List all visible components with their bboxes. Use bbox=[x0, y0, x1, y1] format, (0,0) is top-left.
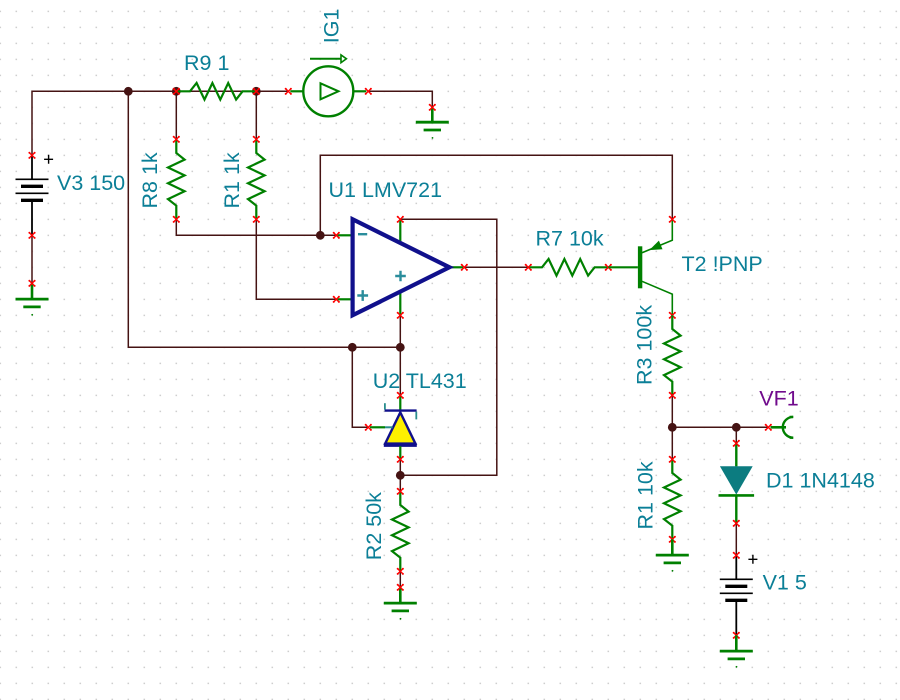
junction at R9 left bbox=[172, 87, 181, 96]
current source IG1 bbox=[285, 55, 372, 116]
ground for R1 10k bbox=[656, 539, 689, 571]
svg-text:R8 1k: R8 1k bbox=[138, 152, 162, 208]
wire TL431 reference bbox=[352, 347, 368, 427]
junction at TL431 cathode rail bbox=[396, 343, 405, 352]
svg-text:D1 1N4148: D1 1N4148 bbox=[766, 469, 875, 493]
svg-text:V3 150: V3 150 bbox=[57, 171, 125, 195]
svg-text:R2 50k: R2 50k bbox=[362, 492, 386, 560]
wire V3 bottom to ground bbox=[31, 235, 33, 283]
ground for V1 bbox=[720, 635, 753, 667]
junction at D1 node bbox=[732, 423, 741, 432]
wire op-amp output to R7 bbox=[464, 266, 528, 268]
wire R2 bottom to ground bbox=[399, 571, 401, 587]
junction at TL431 ref rail bbox=[348, 343, 357, 352]
wire left drop to TL431 rail bbox=[128, 91, 400, 347]
wire R8 top bbox=[175, 91, 177, 139]
svg-text:IG1: IG1 bbox=[319, 9, 343, 44]
wire TL431 cathode bbox=[399, 347, 401, 395]
junction at R9 right bbox=[252, 87, 261, 96]
svg-text:R1 1k: R1 1k bbox=[220, 152, 244, 208]
svg-text:V1 5: V1 5 bbox=[763, 570, 807, 594]
svg-text:R3 100k: R3 100k bbox=[633, 305, 657, 385]
wire IG1 right pin to ground bbox=[368, 91, 432, 107]
resistor R2 bbox=[392, 488, 409, 575]
wire R1 top bbox=[255, 91, 257, 139]
wire R1 bottom to non-inverting input bbox=[256, 219, 336, 299]
resistor R8 bbox=[168, 136, 185, 223]
wire R3 bottom to R1 top bbox=[671, 395, 673, 459]
resistor R9 bbox=[173, 83, 260, 100]
resistor R3 bbox=[664, 315, 681, 399]
ground for R2 bbox=[384, 587, 417, 619]
wire node to D1 bbox=[735, 427, 737, 443]
ground for IG1 bbox=[416, 107, 449, 139]
svg-text:R9 1: R9 1 bbox=[184, 51, 229, 75]
wire D1 cathode to V1 bbox=[735, 523, 737, 555]
wire op-amp top supply to TL431 bottom node bbox=[400, 219, 497, 475]
junction at inverting input node bbox=[316, 231, 325, 240]
resistor R7 bbox=[525, 259, 612, 276]
voltage probe VF1 bbox=[765, 417, 794, 438]
wire op-amp bottom supply bbox=[399, 315, 401, 347]
resistor R1 1k bbox=[248, 136, 265, 223]
svg-text:R1 10k: R1 10k bbox=[634, 461, 658, 529]
svg-text:U2 TL431: U2 TL431 bbox=[373, 369, 467, 393]
junction at top rail x=128 bbox=[124, 87, 133, 96]
svg-text:T2 !PNP: T2 !PNP bbox=[682, 252, 763, 276]
diode D1 bbox=[719, 440, 755, 527]
wire top rail from V3 to R9/IG1 bbox=[32, 91, 288, 155]
wire feedback from inverting node to T2 emitter bbox=[320, 155, 672, 235]
ground for V3 bbox=[16, 283, 49, 315]
battery V1 bbox=[720, 552, 758, 639]
junction at TL431 anode node bbox=[396, 471, 405, 480]
svg-text:R7 10k: R7 10k bbox=[536, 226, 604, 250]
battery V3 bbox=[16, 152, 54, 239]
svg-text:U1 LMV721: U1 LMV721 bbox=[329, 178, 443, 202]
resistor R1 10k bbox=[664, 456, 681, 543]
op-amp U1 bbox=[333, 216, 468, 319]
wire R8 bottom to inverting input bbox=[176, 219, 336, 235]
wire TL431 anode to node bbox=[399, 459, 401, 491]
shunt regulator U2 TL431 bbox=[365, 392, 417, 463]
wire output node to VF1 bbox=[672, 426, 768, 428]
svg-text:VF1: VF1 bbox=[759, 387, 798, 411]
transistor T2 PNP bbox=[608, 216, 676, 319]
junction at R3/R1 output node bbox=[668, 423, 677, 432]
